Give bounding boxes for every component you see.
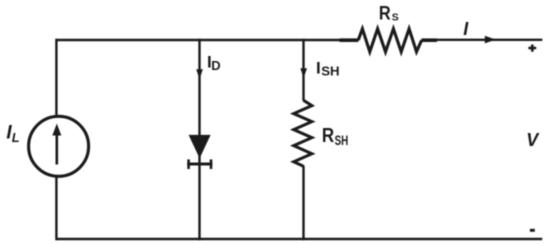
current source arrow shaft	[55, 131, 58, 165]
wire: bottom rail	[56, 238, 542, 240]
wire: left branch below current source	[55, 176, 57, 240]
minus terminal sign	[530, 229, 535, 232]
arrow I_D on diode branch	[196, 69, 203, 79]
svg-text:V: V	[526, 130, 540, 150]
resistor R_S right lead	[421, 38, 437, 42]
arrow I_SH on shunt branch	[300, 68, 307, 78]
wire: shunt branch upper vertical	[302, 39, 304, 101]
current source arrow head	[52, 124, 61, 136]
diode D1 cathode right tick	[210, 159, 213, 169]
wire: top rail from left corner to R_S left lead	[56, 39, 341, 41]
resistor R_S zigzag	[358, 29, 421, 52]
wire: left branch above current source	[55, 39, 57, 117]
svg-text:S: S	[392, 12, 399, 23]
diode D1 cathode bar	[187, 163, 212, 166]
current source I_L circle	[29, 116, 89, 176]
svg-text:D: D	[211, 58, 220, 73]
resistor R_S left lead	[340, 38, 359, 42]
svg-text:L: L	[12, 131, 20, 145]
diode D1 triangle	[189, 135, 211, 159]
arrow for output current I	[485, 36, 496, 44]
svg-text:SH: SH	[321, 64, 339, 79]
svg-text:SH: SH	[335, 132, 349, 148]
svg-text:R: R	[322, 124, 335, 147]
wire: diode branch vertical	[198, 39, 200, 240]
svg-text:I: I	[463, 19, 469, 39]
svg-text:R: R	[379, 2, 391, 23]
wire: top rail from R_S right lead to output + terminal	[436, 39, 542, 41]
diode D1 cathode left tick	[187, 159, 190, 169]
wire: shunt branch lower vertical	[302, 166, 304, 240]
svg-text:I: I	[316, 58, 321, 77]
plus terminal sign	[528, 47, 536, 50]
resistor R_SH zigzag	[294, 100, 312, 166]
